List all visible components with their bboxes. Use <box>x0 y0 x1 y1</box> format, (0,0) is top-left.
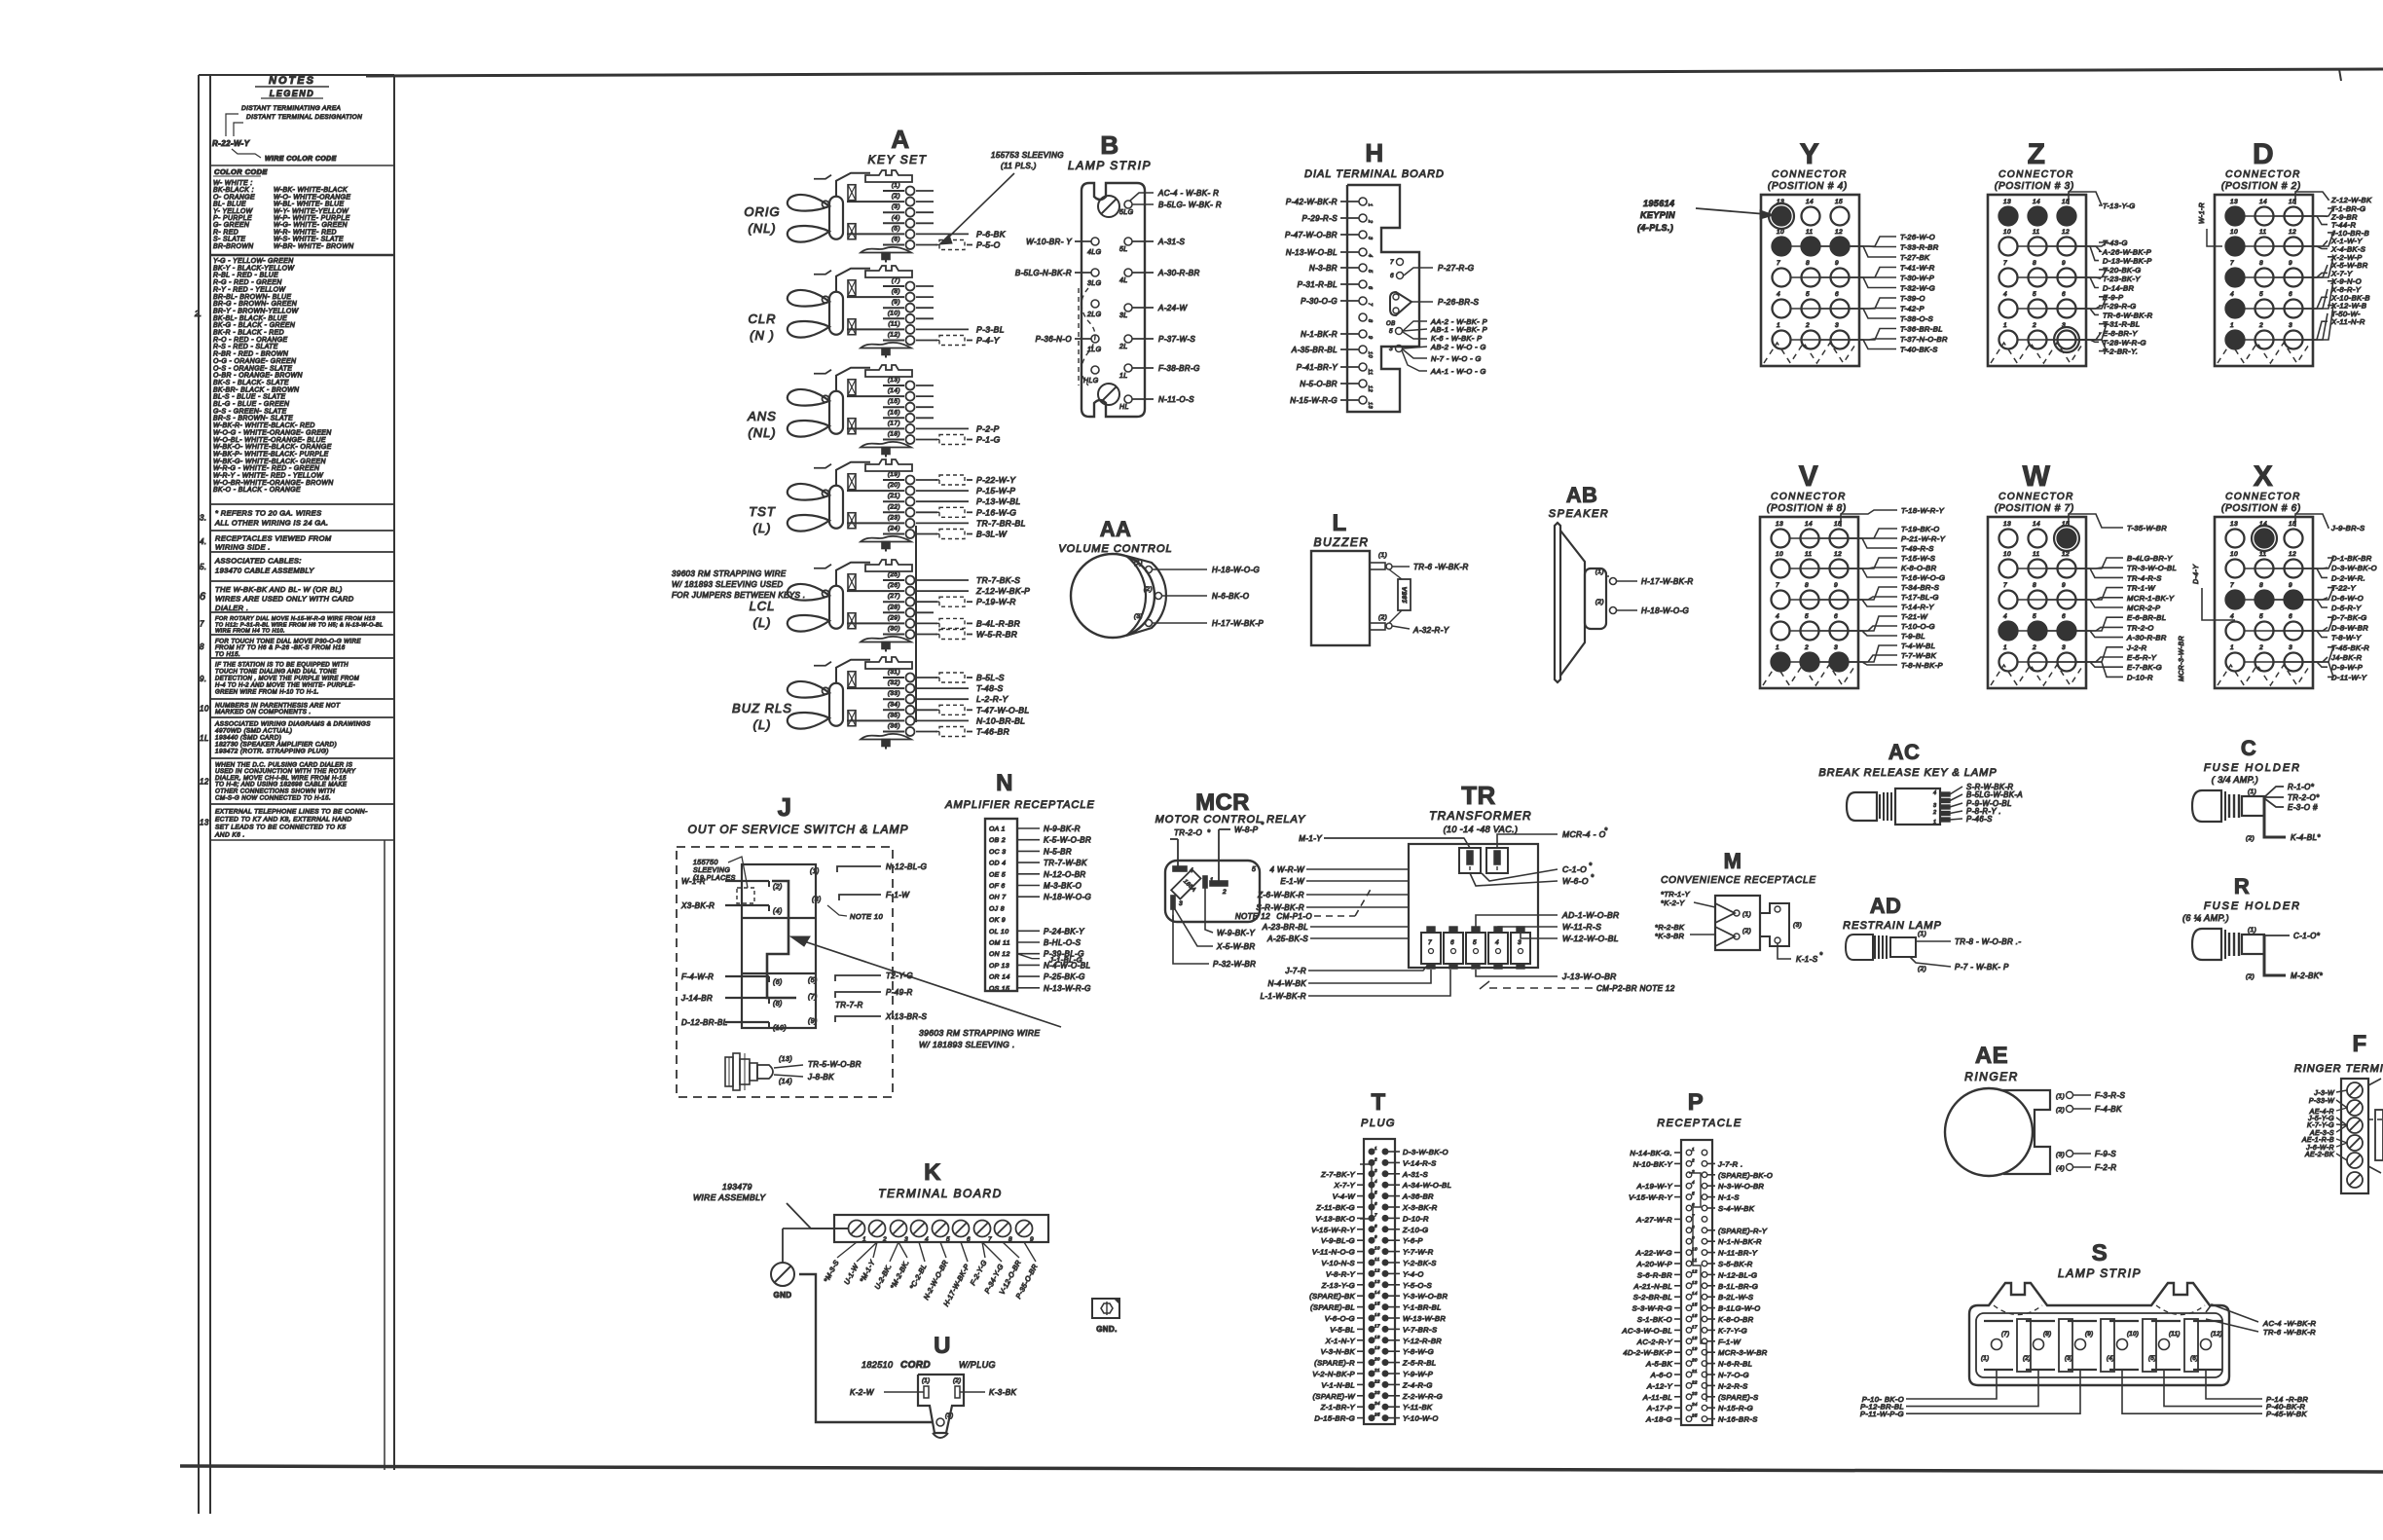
svg-text:BK-O - BLACK - ORANGE: BK-O - BLACK - ORANGE <box>213 487 301 494</box>
svg-text:P-22-W-Y: P-22-W-Y <box>976 475 1016 485</box>
svg-text:T-37-N-O-BR: T-37-N-O-BR <box>1900 335 1948 344</box>
svg-text:T-8-W-Y: T-8-W-Y <box>2331 634 2362 642</box>
svg-text:17: 17 <box>1375 1323 1380 1328</box>
svg-text:T-16-W-O-G: T-16-W-O-G <box>1901 573 1945 582</box>
svg-text:W-BL- WHITE- BLUE: W-BL- WHITE- BLUE <box>274 202 345 208</box>
svg-text:N-5-BR: N-5-BR <box>1044 847 1072 856</box>
svg-text:D-1-BK-BR: D-1-BK-BR <box>2331 554 2372 563</box>
svg-text:W-6-O: W-6-O <box>1562 876 1589 886</box>
svg-text:P-7 - W-BK- P: P-7 - W-BK- P <box>1955 963 2009 972</box>
svg-text:T-43-G: T-43-G <box>2103 238 2128 247</box>
svg-text:6: 6 <box>1835 291 1839 298</box>
svg-text:TO H12: P-31-R-BL WIRE FROM H6: TO H12: P-31-R-BL WIRE FROM H6 TO H5; & … <box>215 622 384 628</box>
svg-text:(3): (3) <box>812 897 822 903</box>
svg-text:T-49-R-S: T-49-R-S <box>1901 544 1934 553</box>
svg-text:J-5-Y-G: J-5-Y-G <box>2307 1116 2334 1122</box>
svg-text:3: 3 <box>2289 644 2292 651</box>
svg-text:7: 7 <box>200 620 204 629</box>
svg-text:(8): (8) <box>2043 1332 2052 1338</box>
svg-text:3: 3 <box>2062 644 2066 651</box>
svg-text:D-8-W-BR: D-8-W-BR <box>2331 623 2368 632</box>
svg-text:B-5LG-W-BK-A: B-5LG-W-BK-A <box>1966 790 2023 799</box>
svg-text:(5): (5) <box>2148 1356 2157 1362</box>
svg-text:16: 16 <box>1375 1312 1380 1317</box>
svg-text:D-15-BR-G: D-15-BR-G <box>1314 1414 1355 1423</box>
svg-text:TOUCH TONE DIALING AND DIAL: TOUCH TONE DIALING AND DIAL TONE <box>215 670 338 676</box>
svg-text:(10): (10) <box>773 1025 787 1032</box>
svg-text:3: 3 <box>1933 803 1937 809</box>
svg-text:11: 11 <box>2259 229 2267 236</box>
svg-text:MCR-3-W-BR: MCR-3-W-BR <box>2179 636 2185 681</box>
svg-text:V-13-BK-O: V-13-BK-O <box>1316 1214 1355 1223</box>
svg-text:(21): (21) <box>888 493 900 499</box>
svg-text:WIRE COLOR CODE: WIRE COLOR CODE <box>265 156 337 163</box>
svg-text:14: 14 <box>2259 521 2267 528</box>
svg-text:P-42-W-BK-R: P-42-W-BK-R <box>1286 198 1338 206</box>
svg-text:7: 7 <box>2003 582 2007 589</box>
svg-text:X-7-Y: X-7-Y <box>1334 1181 1356 1190</box>
svg-text:P-49-R: P-49-R <box>886 988 913 997</box>
svg-text:2: 2 <box>1222 889 1227 896</box>
svg-text:E-6-BR-BL: E-6-BR-BL <box>2127 613 2166 622</box>
svg-text:(3): (3) <box>1793 922 1802 929</box>
svg-text:(9): (9) <box>2085 1332 2094 1338</box>
svg-text:(6): (6) <box>892 237 900 243</box>
svg-text:(POSITION # 2): (POSITION # 2) <box>2221 181 2301 192</box>
svg-text:T-13-Y-G: T-13-Y-G <box>2103 202 2136 210</box>
svg-text:A-26-W-BK-P: A-26-W-BK-P <box>2102 247 2152 256</box>
svg-text:155753 SLEEVING: 155753 SLEEVING <box>991 151 1064 160</box>
svg-text:15: 15 <box>1375 1302 1380 1306</box>
svg-text:24: 24 <box>1691 1402 1698 1407</box>
svg-text:Y-12-R-BR: Y-12-R-BR <box>1403 1337 1442 1345</box>
svg-text:7: 7 <box>1390 259 1394 266</box>
svg-text:(23): (23) <box>888 514 900 521</box>
svg-text:N-10-BR-BL: N-10-BR-BL <box>976 715 1025 725</box>
svg-text:2: 2 <box>1932 810 1936 816</box>
svg-text:DIALER .: DIALER . <box>215 604 248 612</box>
svg-text:13: 13 <box>200 819 209 827</box>
svg-text:DISTANT TERMINAL DESIGNATION: DISTANT TERMINAL DESIGNATION <box>246 114 362 121</box>
svg-text:RECEPTACLE: RECEPTACLE <box>1657 1118 1742 1129</box>
svg-text:D-3-W-BK-O: D-3-W-BK-O <box>2331 564 2377 572</box>
svg-text:M-3-BK-O: M-3-BK-O <box>1044 882 1082 891</box>
svg-text:17: 17 <box>1692 1324 1698 1329</box>
svg-text:X-5-W-BR: X-5-W-BR <box>1216 942 1256 951</box>
svg-text:V-4-W: V-4-W <box>1333 1192 1356 1201</box>
svg-text:13: 13 <box>1776 521 1783 528</box>
svg-text:3: 3 <box>1835 322 1839 329</box>
svg-text:N-10-BK-Y: N-10-BK-Y <box>1633 1159 1673 1168</box>
svg-text:H-4 TO H-2 AND MOVE THE WH: H-4 TO H-2 AND MOVE THE WHITE- PURPLE- <box>215 683 355 689</box>
svg-text:1: 1 <box>862 1236 866 1243</box>
svg-text:(27): (27) <box>888 593 900 600</box>
svg-text:Z-1-BR-Y: Z-1-BR-Y <box>1320 1403 1356 1412</box>
svg-text:11: 11 <box>1375 1257 1380 1262</box>
svg-text:KEYPIN: KEYPIN <box>1640 210 1675 220</box>
svg-text:AE-3-S: AE-3-S <box>2309 1130 2334 1137</box>
svg-text:Z: Z <box>2028 138 2046 170</box>
svg-text:V-3-N-BK: V-3-N-BK <box>1321 1347 1356 1356</box>
svg-text:D-10-R: D-10-R <box>2127 673 2153 681</box>
svg-text:2: 2 <box>882 1236 887 1243</box>
svg-text:W-R-Y - WHITE- RED - YELLOW: W-R-Y - WHITE- RED - YELLOW <box>213 473 324 480</box>
svg-text:W-S- WHITE- SLATE: W-S- WHITE- SLATE <box>274 237 344 243</box>
svg-text:N-6-R-BL: N-6-R-BL <box>1718 1360 1752 1369</box>
svg-text:F-2-R: F-2-R <box>2095 1163 2116 1172</box>
svg-text:A-21-N-BL: A-21-N-BL <box>1633 1282 1672 1291</box>
svg-text:V-2-N-BK-P: V-2-N-BK-P <box>1312 1370 1355 1378</box>
svg-text:N-9-BK-R: N-9-BK-R <box>1044 825 1081 833</box>
svg-text:W-BR- WHITE- BROWN: W-BR- WHITE- BROWN <box>274 243 353 250</box>
svg-text:N-7 - W-O - G: N-7 - W-O - G <box>1431 354 1482 363</box>
svg-text:AD: AD <box>1870 894 1902 918</box>
svg-text:T-28-W-R-G: T-28-W-R-G <box>2103 338 2146 347</box>
svg-text:S: S <box>2092 1240 2108 1266</box>
svg-text:(5): (5) <box>892 225 900 232</box>
svg-text:R-22-W-Y: R-22-W-Y <box>212 139 250 148</box>
svg-text:D-9-W-P: D-9-W-P <box>2331 663 2364 672</box>
svg-text:D-2-W-R.: D-2-W-R. <box>2331 573 2365 582</box>
svg-text:Y-1-BR-BL: Y-1-BR-BL <box>1403 1303 1442 1312</box>
svg-text:(28): (28) <box>888 604 900 610</box>
svg-text:(3): (3) <box>892 203 900 210</box>
svg-text:*: * <box>1261 821 1265 829</box>
svg-text:P-32-W-BR: P-32-W-BR <box>1213 960 1256 969</box>
svg-text:AC-4 -W-BK-R: AC-4 -W-BK-R <box>2262 1319 2317 1328</box>
svg-text:12: 12 <box>1834 551 1842 558</box>
svg-text:KEY SET: KEY SET <box>868 153 928 166</box>
svg-text:8: 8 <box>1375 1224 1377 1228</box>
svg-text:V-6-O-G: V-6-O-G <box>1325 1314 1355 1323</box>
svg-text:9: 9 <box>2062 582 2066 589</box>
svg-text:B-2L-W-S: B-2L-W-S <box>1718 1293 1753 1302</box>
svg-text:P-46-S: P-46-S <box>1966 815 1993 824</box>
svg-text:Y-3-W-O-BR: Y-3-W-O-BR <box>1403 1292 1448 1301</box>
svg-text:J-7-R .: J-7-R . <box>1717 1159 1743 1168</box>
svg-text:22: 22 <box>1374 1378 1380 1383</box>
svg-text:SLEEVING: SLEEVING <box>693 867 730 874</box>
svg-text:BK-S - BLACK- SLATE: BK-S - BLACK- SLATE <box>213 380 289 386</box>
svg-text:T-19-BK-O: T-19-BK-O <box>1901 525 1940 533</box>
svg-text:3L: 3L <box>1119 312 1128 319</box>
svg-text:A-11-BL: A-11-BL <box>1642 1393 1672 1402</box>
svg-text:(4): (4) <box>2107 1356 2115 1362</box>
svg-text:BL-G - BLUE - GREEN: BL-G - BLUE - GREEN <box>213 401 289 408</box>
svg-text:TST: TST <box>749 504 776 519</box>
svg-text:M-1-Y: M-1-Y <box>1299 834 1322 843</box>
svg-text:W-9-BK-Y: W-9-BK-Y <box>1217 929 1255 937</box>
svg-text:E-7-BK-G: E-7-BK-G <box>2127 663 2162 672</box>
svg-text:(13): (13) <box>888 377 900 384</box>
svg-text:A-22-W-G: A-22-W-G <box>1635 1249 1672 1258</box>
svg-text:(2): (2) <box>2246 835 2255 842</box>
svg-text:P: P <box>1688 1089 1704 1116</box>
svg-text:1: 1 <box>1777 322 1780 329</box>
svg-text:H-17-W-BK-R: H-17-W-BK-R <box>1641 577 1694 586</box>
svg-text:LAMP STRIP: LAMP STRIP <box>1068 159 1152 172</box>
svg-text:185A: 185A <box>1402 586 1409 603</box>
svg-text:TR-7-R: TR-7-R <box>835 1001 863 1009</box>
svg-text:V-15-W-R-Y: V-15-W-R-Y <box>1629 1193 1672 1202</box>
svg-text:GND: GND <box>774 1291 792 1300</box>
svg-text:Y-5-O-S: Y-5-O-S <box>1403 1281 1432 1290</box>
svg-text:7: 7 <box>2230 260 2234 267</box>
svg-text:(9): (9) <box>892 299 900 306</box>
svg-text:21: 21 <box>1374 1368 1380 1373</box>
svg-text:G-S - GREEN- SLATE: G-S - GREEN- SLATE <box>213 408 287 415</box>
svg-text:T-41-W-R: T-41-W-R <box>1900 264 1935 273</box>
svg-text:3.: 3. <box>200 514 206 523</box>
svg-text:R-G - RED - GREEN: R-G - RED - GREEN <box>213 279 282 286</box>
svg-text:P-25-BK-G: P-25-BK-G <box>1044 972 1085 981</box>
svg-text:18: 18 <box>1375 1335 1380 1339</box>
svg-text:(2): (2) <box>953 1378 962 1384</box>
svg-text:11: 11 <box>2259 551 2267 558</box>
svg-text:2: 2 <box>1804 644 1809 651</box>
svg-text:3: 3 <box>1389 346 1393 352</box>
svg-text:X-3-BK-R: X-3-BK-R <box>1402 1203 1438 1212</box>
svg-text:21: 21 <box>1691 1369 1698 1374</box>
svg-text:V-15-W-R-Y: V-15-W-R-Y <box>1311 1226 1355 1234</box>
svg-text:16: 16 <box>1692 1313 1698 1318</box>
svg-text:3: 3 <box>1179 900 1183 907</box>
svg-text:OP 13: OP 13 <box>989 963 1009 970</box>
svg-text:(13): (13) <box>779 1056 792 1063</box>
svg-text:1L: 1L <box>1119 373 1128 380</box>
svg-text:12: 12 <box>1375 1267 1380 1272</box>
svg-text:(10): (10) <box>2127 1332 2139 1338</box>
svg-text:TR-2-O: TR-2-O <box>2127 623 2154 632</box>
svg-text:F-38-BR-G: F-38-BR-G <box>1158 364 1200 373</box>
svg-text:W-O-BL- WHITE-ORANGE- BLUE: W-O-BL- WHITE-ORANGE- BLUE <box>213 437 326 444</box>
svg-text:A-32-R-Y: A-32-R-Y <box>1412 626 1449 635</box>
svg-text:( 3/4 AMP.): ( 3/4 AMP.) <box>2212 775 2258 785</box>
svg-text:P-15-W-P: P-15-W-P <box>976 486 1015 495</box>
svg-text:BK-BR- BLACK - BROWN: BK-BR- BLACK - BROWN <box>213 386 299 393</box>
svg-text:L-1-W-BK-R: L-1-W-BK-R <box>1261 992 1306 1001</box>
svg-text:Y-7-W-R: Y-7-W-R <box>1403 1248 1434 1257</box>
svg-text:P-21-W-R-Y: P-21-W-R-Y <box>1901 534 1946 543</box>
svg-text:LAMP STRIP: LAMP STRIP <box>2058 1266 2142 1280</box>
svg-text:AD-1-W-O-BR: AD-1-W-O-BR <box>1561 910 1620 920</box>
svg-text:3: 3 <box>1518 939 1521 946</box>
svg-text:N-4-W-BK: N-4-W-BK <box>1268 979 1307 988</box>
svg-text:C-1-O: C-1-O <box>1562 864 1587 874</box>
svg-text:1: 1 <box>1692 1147 1695 1152</box>
svg-text:T: T <box>1371 1089 1385 1116</box>
svg-text:W-R- WHITE- RED: W-R- WHITE- RED <box>274 229 337 236</box>
svg-text:BK-G - BLACK - GREEN: BK-G - BLACK - GREEN <box>213 322 295 329</box>
svg-text:TR-2-O: TR-2-O <box>1174 828 1202 837</box>
svg-text:M: M <box>1724 849 1742 873</box>
svg-text:A-24-W: A-24-W <box>1157 304 1189 312</box>
svg-text:T-29-R-G: T-29-R-G <box>2103 302 2137 311</box>
svg-text:(30): (30) <box>888 626 900 633</box>
svg-text:T-33-R-BR: T-33-R-BR <box>1900 243 1939 252</box>
svg-text:(26): (26) <box>888 582 900 589</box>
svg-text:5: 5 <box>2259 291 2263 298</box>
svg-text:N-7-O-G: N-7-O-G <box>1718 1371 1749 1379</box>
svg-text:193472 (ROTR. STRAPPING PLUG): 193472 (ROTR. STRAPPING PLUG) <box>215 749 329 755</box>
svg-text:S-5-BK-R: S-5-BK-R <box>1718 1260 1753 1268</box>
svg-text:11: 11 <box>1805 551 1813 558</box>
svg-text:*: * <box>1589 862 1593 870</box>
svg-text:AC: AC <box>1888 740 1921 764</box>
svg-text:(5): (5) <box>808 977 818 984</box>
svg-text:6: 6 <box>1375 1201 1377 1206</box>
svg-text:10: 10 <box>2003 229 2011 236</box>
svg-text:N-18-W-O-G: N-18-W-O-G <box>1044 893 1091 901</box>
svg-text:(N ): (N ) <box>750 328 775 343</box>
svg-text:B-1LG-W-O: B-1LG-W-O <box>1718 1304 1761 1313</box>
svg-text:MCR-2-P: MCR-2-P <box>2127 604 2161 612</box>
svg-text:CONNECTOR: CONNECTOR <box>1771 492 1847 502</box>
svg-text:(NL): (NL) <box>748 425 776 440</box>
svg-text:5: 5 <box>1367 270 1373 274</box>
svg-text:A-20-W-P: A-20-W-P <box>1636 1260 1673 1268</box>
svg-text:AE: AE <box>1975 1043 2008 1069</box>
svg-text:P-5-O: P-5-O <box>976 240 1001 250</box>
svg-text:15: 15 <box>1835 199 1843 205</box>
svg-text:(1): (1) <box>1378 552 1387 559</box>
svg-text:BK-R - BLACK - RED: BK-R - BLACK - RED <box>213 330 284 337</box>
svg-text:(SPARE)-BL: (SPARE)-BL <box>1310 1303 1355 1312</box>
svg-text:V-7-BR-S: V-7-BR-S <box>1403 1325 1437 1334</box>
svg-text:6: 6 <box>1450 939 1454 946</box>
svg-text:10: 10 <box>2003 551 2011 558</box>
svg-text:S-3-W-R-G: S-3-W-R-G <box>1632 1304 1672 1313</box>
svg-text:5: 5 <box>1692 1192 1695 1196</box>
svg-text:1: 1 <box>1933 820 1936 825</box>
svg-text:P-2-P: P-2-P <box>976 423 1000 433</box>
svg-text:5: 5 <box>1375 1191 1377 1195</box>
svg-text:TRANSFORMER: TRANSFORMER <box>1429 809 1532 823</box>
svg-text:F: F <box>2352 1031 2366 1057</box>
svg-text:AA-1 - W-O - G: AA-1 - W-O - G <box>1430 367 1486 376</box>
svg-text:(4): (4) <box>2056 1165 2065 1172</box>
svg-text:6: 6 <box>2289 291 2292 298</box>
svg-text:1LG: 1LG <box>1087 347 1102 353</box>
svg-text:Z-13-Y-G: Z-13-Y-G <box>1321 1281 1355 1290</box>
svg-text:7: 7 <box>2230 582 2234 589</box>
svg-text:7: 7 <box>2003 260 2007 267</box>
svg-text:V: V <box>1799 460 1818 493</box>
svg-text:X-1-N-Y: X-1-N-Y <box>1325 1337 1356 1345</box>
svg-text:W-BK-R- WHITE-BLACK- RED: W-BK-R- WHITE-BLACK- RED <box>213 422 315 429</box>
svg-text:*TR-1-Y: *TR-1-Y <box>1661 890 1690 898</box>
svg-text:HLG: HLG <box>1083 378 1099 385</box>
svg-text:10: 10 <box>2230 229 2238 236</box>
svg-text:4: 4 <box>1375 1179 1377 1184</box>
svg-text:OE 5: OE 5 <box>989 871 1006 878</box>
svg-text:N-13-W-R-G: N-13-W-R-G <box>1044 984 1091 993</box>
svg-text:5: 5 <box>2033 291 2036 298</box>
svg-text:1: 1 <box>2230 322 2234 329</box>
svg-text:(29): (29) <box>888 614 900 621</box>
svg-text:19: 19 <box>1375 1345 1380 1350</box>
svg-text:(SPARE)-BK: (SPARE)-BK <box>1309 1292 1355 1301</box>
svg-text:5L: 5L <box>1119 246 1128 253</box>
svg-text:(19): (19) <box>888 471 900 478</box>
svg-text:(2): (2) <box>773 884 783 891</box>
svg-text:S-R-W-BK-R: S-R-W-BK-R <box>1256 903 1304 912</box>
svg-text:H-17-W-BK-P: H-17-W-BK-P <box>1212 619 1264 628</box>
svg-text:BREAK RELEASE KEY & LAMP: BREAK RELEASE KEY & LAMP <box>1818 767 1997 779</box>
svg-text:9: 9 <box>2289 582 2292 589</box>
svg-text:ASSOCIATED CABLES:: ASSOCIATED CABLES: <box>214 557 302 566</box>
svg-text:O-G - ORANGE- GREEN: O-G - ORANGE- GREEN <box>213 358 296 365</box>
svg-text:OK 9: OK 9 <box>989 917 1006 924</box>
svg-text:C: C <box>2241 736 2256 760</box>
svg-text:BR-Y - BROWN-YELLOW: BR-Y - BROWN-YELLOW <box>213 308 300 314</box>
svg-text:CONVENIENCE RECEPTACLE: CONVENIENCE RECEPTACLE <box>1661 875 1816 886</box>
svg-text:A-18-G: A-18-G <box>1645 1415 1672 1424</box>
svg-text:AC-2-R-Y: AC-2-R-Y <box>1636 1338 1673 1346</box>
svg-text:193479: 193479 <box>722 1182 752 1192</box>
svg-text:* REFERS TO 20 GA. WIRES: * REFERS TO 20 GA. WIRES <box>215 509 321 518</box>
svg-text:5: 5 <box>1805 613 1809 620</box>
svg-text:OR 14: OR 14 <box>989 974 1010 981</box>
svg-text:Z-6-W-BK-R: Z-6-W-BK-R <box>1257 891 1304 899</box>
svg-text:(1): (1) <box>2248 788 2256 795</box>
svg-text:14: 14 <box>2033 199 2040 205</box>
svg-text:Y-10-W-O: Y-10-W-O <box>1403 1414 1439 1423</box>
svg-text:O-S - ORANGE- SLATE: O-S - ORANGE- SLATE <box>213 365 292 372</box>
svg-text:4: 4 <box>2230 291 2234 298</box>
svg-text:P-37-W-S: P-37-W-S <box>1158 335 1195 344</box>
svg-text:12: 12 <box>1835 229 1843 236</box>
svg-text:M-2-BK*: M-2-BK* <box>2291 972 2324 980</box>
svg-text:(NL): (NL) <box>748 221 776 236</box>
svg-text:RINGER: RINGER <box>1964 1070 2019 1083</box>
svg-text:OB: OB <box>1386 321 1395 327</box>
svg-text:14: 14 <box>1375 1290 1380 1295</box>
svg-text:A-34-W-O-BL: A-34-W-O-BL <box>1402 1181 1451 1190</box>
svg-text:T-34-BR-S: T-34-BR-S <box>1901 583 1939 592</box>
svg-text:D-13-W-BK-P: D-13-W-BK-P <box>2103 257 2152 266</box>
svg-text:*R-2-BK: *R-2-BK <box>1655 923 1685 932</box>
svg-text:(2): (2) <box>2246 973 2255 980</box>
svg-text:T-20-BK-G: T-20-BK-G <box>2103 266 2142 275</box>
svg-text:N-1-BK-R: N-1-BK-R <box>1301 330 1338 339</box>
svg-text:CM-S-G NOW CONNECTED TO H-15: CM-S-G NOW CONNECTED TO H-15. <box>215 794 331 801</box>
svg-text:AB: AB <box>1566 483 1598 507</box>
svg-text:BR-S - BROWN- SLATE: BR-S - BROWN- SLATE <box>213 416 293 422</box>
svg-text:W-8-P: W-8-P <box>1234 825 1259 834</box>
svg-text:7: 7 <box>1777 260 1780 267</box>
svg-text:14: 14 <box>1805 521 1813 528</box>
svg-text:OUT OF SERVICE SWITCH & LAM: OUT OF SERVICE SWITCH & LAMP <box>688 823 909 836</box>
svg-text:AB-2 - W-O - G: AB-2 - W-O - G <box>1430 343 1486 351</box>
svg-text:OF 6: OF 6 <box>989 883 1006 890</box>
svg-text:D-10-R: D-10-R <box>1403 1214 1429 1223</box>
svg-text:WIRES ARE USED ONLY WITH CA: WIRES ARE USED ONLY WITH CARD <box>215 595 354 604</box>
svg-text:GND.: GND. <box>1096 1325 1118 1334</box>
svg-text:182730 (SPEAKER AMPLIFIER CA: 182730 (SPEAKER AMPLIFIER CARD) <box>215 742 337 749</box>
svg-text:BUZ RLS: BUZ RLS <box>732 701 792 715</box>
svg-text:9: 9 <box>1367 336 1373 339</box>
svg-text:3: 3 <box>1375 1168 1377 1173</box>
svg-text:4.: 4. <box>200 537 206 546</box>
svg-text:TR-4-R-S: TR-4-R-S <box>2127 573 2162 582</box>
svg-text:10: 10 <box>2230 551 2238 558</box>
svg-text:TO H15.: TO H15. <box>215 651 240 658</box>
svg-text:K-5-W-O-BR: K-5-W-O-BR <box>1044 836 1091 845</box>
svg-text:A-31-S: A-31-S <box>1402 1170 1428 1179</box>
svg-text:F-9-S: F-9-S <box>2095 1150 2116 1158</box>
svg-text:AE-2-BK: AE-2-BK <box>2304 1152 2334 1158</box>
